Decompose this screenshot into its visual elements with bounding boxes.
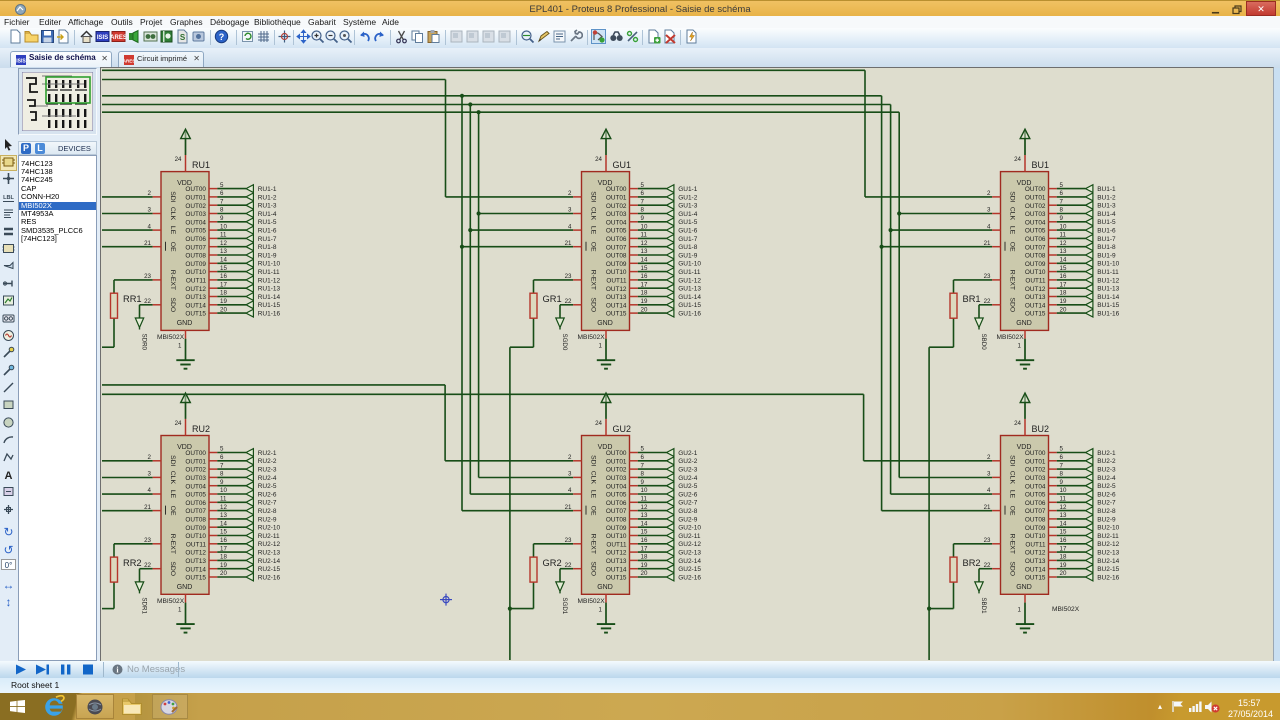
svg-text:21: 21 (144, 504, 151, 511)
wire and terminal BU2-7 (1057, 498, 1116, 506)
svg-text:16: 16 (641, 537, 648, 544)
wire GR2 bottom join (510, 582, 534, 660)
svg-text:MBI502X: MBI502X (157, 598, 185, 605)
wire SDI-G vertical drop (445, 80, 447, 197)
svg-text:RU2-8: RU2-8 (258, 508, 277, 515)
wire LE into GU1 (470, 229, 573, 231)
svg-text:7: 7 (220, 462, 224, 469)
svg-text:2: 2 (568, 454, 572, 461)
wire SDI-G into GU1 (446, 196, 574, 198)
svg-text:BU2-6: BU2-6 (1097, 491, 1116, 498)
svg-text:OUT02: OUT02 (606, 467, 627, 474)
wire R-EXT of BR2 row2 (954, 544, 993, 557)
svg-text:MBI502X: MBI502X (578, 598, 606, 605)
svg-text:OUT13: OUT13 (606, 294, 627, 301)
svg-text:BU2-10: BU2-10 (1097, 525, 1119, 532)
svg-text:OUT08: OUT08 (185, 253, 206, 260)
svg-text:SBD0: SBD0 (980, 334, 987, 351)
svg-text:OUT15: OUT15 (185, 311, 206, 318)
svg-text:24: 24 (595, 156, 602, 163)
svg-text:23: 23 (565, 537, 572, 544)
svg-text:SDO: SDO (1009, 561, 1016, 576)
svg-text:RU2-13: RU2-13 (258, 550, 281, 557)
svg-text:14: 14 (641, 257, 648, 264)
wire and terminal BU2-9 (1057, 515, 1116, 523)
svg-text:GU1-8: GU1-8 (678, 244, 698, 251)
power terminal VDD RU1 (181, 129, 191, 155)
wire and terminal GU1-13 (638, 284, 702, 292)
junction dot (929.1,608.6) (927, 607, 931, 611)
wire and terminal GU1-15 (638, 301, 702, 309)
wire and terminal BU1-2 (1057, 193, 1116, 201)
svg-text:OUT00: OUT00 (606, 186, 627, 193)
wire SDO of GU2 (560, 569, 573, 582)
wire and terminal RU2-1 (217, 449, 277, 457)
svg-text:GU2-14: GU2-14 (678, 558, 701, 565)
wire OE vertical right (881, 96, 883, 511)
wire and terminal BU1-6 (1057, 226, 1116, 234)
svg-text:OUT02: OUT02 (185, 467, 206, 474)
svg-text:23: 23 (984, 537, 991, 544)
wire and terminal GU1-11 (638, 268, 701, 276)
svg-text:RU2: RU2 (192, 424, 210, 434)
svg-text:OUT08: OUT08 (1025, 517, 1046, 524)
terminal SDR0 (down arrow) (135, 318, 147, 351)
ground GU2 (597, 603, 615, 633)
wire LE vertical left (469, 105, 471, 495)
wire and terminal BU1-5 (1057, 218, 1116, 226)
svg-text:BR1: BR1 (963, 294, 981, 304)
wire and terminal RU2-9 (217, 515, 277, 523)
svg-text:1: 1 (599, 342, 603, 349)
svg-text:11: 11 (641, 232, 648, 239)
svg-text:OUT02: OUT02 (1025, 203, 1046, 210)
junction dot (509.9,608.6) (508, 607, 512, 611)
svg-text:RU1-14: RU1-14 (258, 294, 281, 301)
wire and terminal RU2-14 (217, 557, 280, 565)
svg-text:GR2: GR2 (543, 558, 562, 568)
svg-text:OUT05: OUT05 (1025, 492, 1046, 499)
wire and terminal GU1-4 (638, 210, 698, 218)
svg-text:OUT11: OUT11 (606, 541, 627, 548)
wire CLK into BU1 (899, 213, 992, 215)
svg-text:RU2-11: RU2-11 (258, 533, 280, 540)
svg-text:6: 6 (1060, 190, 1064, 197)
svg-text:16: 16 (220, 537, 227, 544)
svg-text:OUT06: OUT06 (606, 236, 627, 243)
svg-text:SDO: SDO (590, 561, 597, 576)
svg-text:OUT10: OUT10 (185, 269, 206, 276)
svg-text:7: 7 (641, 198, 645, 205)
wire and terminal BU2-5 (1057, 482, 1116, 490)
svg-text:BU2-8: BU2-8 (1097, 508, 1116, 515)
svg-text:5: 5 (1060, 182, 1064, 189)
svg-text:OUT07: OUT07 (1025, 508, 1046, 515)
svg-text:CLK: CLK (1009, 207, 1016, 221)
svg-text:OUT15: OUT15 (606, 311, 627, 318)
svg-text:GU2-6: GU2-6 (678, 491, 698, 498)
wire CLK vertical right (898, 112, 900, 477)
svg-text:19: 19 (1060, 562, 1067, 569)
svg-text:BU1-5: BU1-5 (1097, 219, 1116, 226)
wire CLK into RU2 (102, 477, 153, 479)
wire and terminal BU1-1 (1057, 185, 1116, 193)
wire and terminal BU2-16 (1057, 573, 1120, 581)
svg-text:15: 15 (220, 265, 227, 272)
svg-text:GR1: GR1 (543, 294, 562, 304)
wire and terminal GU1-3 (638, 201, 698, 209)
wire CLK vertical left (478, 112, 480, 477)
svg-text:1: 1 (178, 342, 182, 349)
svg-text:OUT13: OUT13 (1025, 558, 1046, 565)
svg-text:OUT12: OUT12 (1025, 286, 1046, 293)
svg-text:RU2-12: RU2-12 (258, 541, 281, 548)
wire and terminal GU2-15 (638, 565, 702, 573)
svg-text:GU1-16: GU1-16 (678, 311, 701, 318)
svg-text:9: 9 (1060, 215, 1064, 222)
svg-text:RU2-6: RU2-6 (258, 491, 277, 498)
svg-text:2: 2 (148, 454, 152, 461)
wire and terminal BU1-3 (1057, 201, 1116, 209)
wire and terminal BU1-13 (1057, 284, 1120, 292)
svg-text:GU2-2: GU2-2 (678, 458, 698, 465)
wire R-EXT of GR1 row1 (534, 280, 574, 293)
svg-text:RU2-5: RU2-5 (258, 483, 277, 490)
svg-text:RU1-8: RU1-8 (258, 244, 277, 251)
svg-text:SDI: SDI (590, 191, 597, 202)
wire and terminal BU2-2 (1057, 457, 1116, 465)
wire OE into BU2 (882, 510, 993, 512)
svg-text:11: 11 (1060, 496, 1067, 503)
svg-text:MBI502X: MBI502X (997, 334, 1025, 341)
svg-text:SDR0: SDR0 (141, 334, 148, 351)
svg-text:1: 1 (599, 606, 603, 613)
svg-text:14: 14 (641, 520, 648, 527)
svg-text:OUT00: OUT00 (185, 186, 206, 193)
wire and terminal RU2-10 (217, 523, 280, 531)
svg-text:OUT10: OUT10 (185, 533, 206, 540)
svg-text:SGD1: SGD1 (561, 597, 568, 614)
svg-text:18: 18 (220, 290, 227, 297)
svg-text:OUT08: OUT08 (606, 253, 627, 260)
svg-text:5: 5 (1060, 446, 1064, 453)
svg-text:OUT06: OUT06 (185, 500, 206, 507)
wire and terminal RU1-9 (217, 251, 277, 259)
svg-text:GND: GND (597, 584, 613, 591)
svg-text:GU2: GU2 (613, 424, 632, 434)
IC RU2 (MBI502X 16-channel driver) (144, 419, 227, 613)
svg-text:OUT02: OUT02 (185, 203, 206, 210)
svg-text:A: A (5, 470, 13, 481)
svg-text:OUT01: OUT01 (606, 458, 627, 465)
resistor RR1 (111, 293, 142, 318)
svg-text:5: 5 (220, 182, 224, 189)
svg-text:OUT11: OUT11 (1025, 541, 1046, 548)
svg-text:4: 4 (987, 487, 991, 494)
wire and terminal RU1-3 (217, 201, 277, 209)
svg-text:BU1: BU1 (1032, 160, 1050, 170)
svg-text:ISIS: ISIS (97, 35, 108, 41)
svg-text:1: 1 (1018, 342, 1022, 349)
svg-text:BU1-3: BU1-3 (1097, 203, 1116, 210)
wire bus LE top run (102, 104, 891, 106)
wire and terminal BU1-8 (1057, 243, 1116, 251)
svg-text:4: 4 (148, 223, 152, 230)
wire and terminal GU2-7 (638, 498, 698, 506)
wire and terminal RU1-4 (217, 210, 277, 218)
wire R-EXT of RR2 row2 (114, 544, 153, 557)
svg-text:OUT03: OUT03 (606, 475, 627, 482)
svg-text:OUT09: OUT09 (185, 261, 206, 268)
wire SDO of BU1 (979, 305, 992, 318)
wire and terminal RU1-15 (217, 301, 280, 309)
svg-text:BU2-7: BU2-7 (1097, 500, 1116, 507)
resistor BR2 (950, 557, 981, 582)
svg-text:18: 18 (1060, 554, 1067, 561)
svg-text:RU2-16: RU2-16 (258, 574, 281, 581)
svg-text:OUT11: OUT11 (606, 278, 627, 285)
svg-text:GU1: GU1 (613, 160, 632, 170)
svg-text:6: 6 (220, 190, 224, 197)
svg-text:OUT07: OUT07 (1025, 244, 1046, 251)
svg-text:GU1-12: GU1-12 (678, 277, 701, 284)
svg-text:OUT07: OUT07 (185, 508, 206, 515)
svg-text:OUT09: OUT09 (606, 525, 627, 532)
resistor GR1 (530, 293, 562, 318)
wire and terminal RU2-4 (217, 474, 277, 482)
svg-text:15: 15 (641, 529, 648, 536)
wire and terminal GU1-14 (638, 293, 702, 301)
svg-text:9: 9 (220, 479, 224, 486)
svg-text:RR2: RR2 (123, 558, 142, 568)
svg-text:RU2-4: RU2-4 (258, 475, 277, 482)
wire and terminal BU2-1 (1057, 449, 1116, 457)
wire SDI into GU2 (445, 460, 573, 462)
svg-text:CLK: CLK (590, 207, 597, 221)
wire and terminal GU1-6 (638, 226, 698, 234)
junction dot (478.6,213.5) (477, 211, 481, 215)
wire and terminal GU2-14 (638, 557, 702, 565)
svg-text:14: 14 (220, 520, 227, 527)
svg-text:GND: GND (177, 320, 193, 327)
power terminal VDD RU2 (181, 393, 191, 419)
svg-text:20: 20 (641, 570, 648, 577)
svg-text:RU1-4: RU1-4 (258, 211, 277, 218)
wire and terminal RU2-6 (217, 490, 277, 498)
svg-text:9: 9 (641, 215, 645, 222)
wire and terminal RU1-2 (217, 193, 277, 201)
svg-text:17: 17 (220, 281, 227, 288)
svg-text:GU2-15: GU2-15 (678, 566, 701, 573)
svg-text:8: 8 (641, 207, 645, 214)
svg-text:RU1-10: RU1-10 (258, 261, 281, 268)
svg-text:RU2-1: RU2-1 (258, 450, 277, 457)
svg-text:22: 22 (144, 298, 151, 305)
svg-text:BU1-7: BU1-7 (1097, 236, 1116, 243)
svg-text:OUT04: OUT04 (606, 219, 627, 226)
svg-text:OE: OE (590, 506, 597, 516)
svg-text:SDO: SDO (590, 297, 597, 312)
wire and terminal RU2-7 (217, 498, 277, 506)
svg-text:OUT13: OUT13 (606, 558, 627, 565)
wire and terminal BU2-14 (1057, 557, 1120, 565)
svg-text:3: 3 (987, 207, 991, 214)
svg-text:GU2-12: GU2-12 (678, 541, 701, 548)
svg-text:OUT10: OUT10 (1025, 269, 1046, 276)
svg-text:OUT04: OUT04 (606, 483, 627, 490)
svg-text:GU1-13: GU1-13 (678, 286, 701, 293)
wire and terminal BU2-8 (1057, 507, 1116, 515)
svg-text:OUT09: OUT09 (185, 525, 206, 532)
svg-text:20: 20 (641, 306, 648, 313)
svg-text:OUT11: OUT11 (186, 541, 207, 548)
svg-text:GU1-6: GU1-6 (678, 228, 698, 235)
wire and terminal GU1-8 (638, 243, 698, 251)
wire bus SDI-B2 run (102, 393, 864, 395)
svg-text:SDO: SDO (169, 561, 176, 576)
svg-text:ISIS: ISIS (16, 59, 26, 65)
wire RR2 bottom to edge (102, 582, 114, 609)
wire and terminal RU2-11 (217, 532, 280, 540)
svg-text:4: 4 (568, 223, 572, 230)
svg-text:RU2-2: RU2-2 (258, 458, 277, 465)
svg-text:GU1-11: GU1-11 (678, 269, 701, 276)
svg-text:BU1-15: BU1-15 (1097, 302, 1119, 309)
svg-text:GND: GND (1016, 584, 1032, 591)
wire OE into GU1 (462, 246, 573, 248)
svg-text:OUT06: OUT06 (1025, 236, 1046, 243)
svg-text:13: 13 (1060, 248, 1067, 255)
svg-text:GU1-15: GU1-15 (678, 302, 701, 309)
wire LE into RU1 (102, 229, 153, 231)
svg-text:3: 3 (568, 471, 572, 478)
wire GR1 bottom down net (510, 318, 534, 608)
junction dot (881.6,246.7) (880, 245, 884, 249)
svg-text:SDI: SDI (169, 191, 176, 202)
wire OE into GU2 (462, 510, 573, 512)
svg-text:19: 19 (220, 562, 227, 569)
svg-text:BU1-14: BU1-14 (1097, 294, 1119, 301)
svg-text:OUT03: OUT03 (606, 211, 627, 218)
wire SDO of RU1 (140, 305, 153, 318)
svg-text:11: 11 (1060, 232, 1067, 239)
wire SDO of RU2 (140, 569, 153, 582)
svg-text:GU2-10: GU2-10 (678, 525, 701, 532)
svg-text:14: 14 (1060, 520, 1067, 527)
svg-text:OUT05: OUT05 (1025, 228, 1046, 235)
svg-text:OUT14: OUT14 (1025, 302, 1046, 309)
svg-text:BU1-16: BU1-16 (1097, 311, 1119, 318)
svg-text:OUT03: OUT03 (185, 211, 206, 218)
terminal SDR1 (down arrow) (135, 582, 147, 615)
svg-text:9: 9 (1060, 479, 1064, 486)
svg-text:16: 16 (1060, 537, 1067, 544)
svg-text:GU1-9: GU1-9 (678, 252, 698, 259)
resistor BR1 (950, 293, 981, 318)
svg-text:RU1-7: RU1-7 (258, 236, 277, 243)
svg-text:OUT08: OUT08 (1025, 253, 1046, 260)
svg-text:7: 7 (1060, 198, 1064, 205)
wire and terminal RU2-16 (217, 573, 280, 581)
svg-text:11: 11 (220, 232, 227, 239)
svg-text:10: 10 (641, 223, 648, 230)
svg-text:GU2-3: GU2-3 (678, 467, 698, 474)
svg-text:LE: LE (1009, 226, 1016, 235)
svg-text:OUT05: OUT05 (606, 492, 627, 499)
svg-text:BU2-4: BU2-4 (1097, 475, 1116, 482)
svg-text:OUT07: OUT07 (185, 244, 206, 251)
svg-text:RU1-13: RU1-13 (258, 286, 281, 293)
wire and terminal GU1-12 (638, 276, 702, 284)
svg-text:6: 6 (641, 454, 645, 461)
svg-text:OUT14: OUT14 (1025, 566, 1046, 573)
wire and terminal GU2-13 (638, 548, 702, 556)
wire SDO of GU1 (560, 305, 573, 318)
svg-text:24: 24 (175, 156, 182, 163)
resistor GR2 (530, 557, 562, 582)
svg-text:OUT04: OUT04 (1025, 483, 1046, 490)
svg-text:OUT14: OUT14 (185, 302, 206, 309)
svg-text:OUT05: OUT05 (606, 228, 627, 235)
terminal SGD0 (down arrow) (556, 318, 568, 351)
svg-text:RU1-12: RU1-12 (258, 277, 281, 284)
svg-text:24: 24 (1014, 420, 1021, 427)
svg-text:12: 12 (220, 240, 227, 247)
svg-text:OUT15: OUT15 (1025, 311, 1046, 318)
wire and terminal GU1-1 (638, 185, 698, 193)
svg-text:LE: LE (1009, 490, 1016, 499)
wire and terminal BU1-16 (1057, 309, 1120, 317)
wire R-EXT of GR2 row2 (534, 544, 574, 557)
svg-text:13: 13 (220, 512, 227, 519)
svg-text:RU1-2: RU1-2 (258, 194, 277, 201)
svg-text:19: 19 (641, 562, 648, 569)
wire and terminal RU1-10 (217, 259, 280, 267)
svg-text:7: 7 (1060, 462, 1064, 469)
wire and terminal RU1-1 (217, 185, 277, 193)
wire OE into RU1 (102, 246, 153, 248)
svg-text:18: 18 (220, 554, 227, 561)
svg-text:OUT14: OUT14 (606, 302, 627, 309)
svg-text:R-EXT: R-EXT (1009, 270, 1016, 290)
svg-text:1: 1 (178, 606, 182, 613)
svg-text:OUT10: OUT10 (606, 269, 627, 276)
svg-text:23: 23 (144, 273, 151, 280)
junction dot (470.3,230.1) (468, 228, 472, 232)
svg-text:RU1-6: RU1-6 (258, 228, 277, 235)
junction dot (470.3,104.5) (468, 102, 472, 106)
svg-text:OUT01: OUT01 (606, 195, 627, 202)
svg-text:OUT06: OUT06 (1025, 500, 1046, 507)
svg-text:OUT05: OUT05 (185, 228, 206, 235)
svg-text:GND: GND (597, 320, 613, 327)
svg-text:BU2-5: BU2-5 (1097, 483, 1116, 490)
svg-text:R-EXT: R-EXT (169, 534, 176, 554)
wire and terminal GU2-1 (638, 449, 698, 457)
svg-text:10: 10 (220, 223, 227, 230)
svg-text:OUT05: OUT05 (185, 492, 206, 499)
wire SDI into RU1 (102, 196, 153, 198)
resistor RR2 (111, 557, 142, 582)
wire and terminal BU1-11 (1057, 268, 1119, 276)
wire and terminal BU2-12 (1057, 540, 1120, 548)
svg-text:RU2-10: RU2-10 (258, 525, 281, 532)
svg-text:OUT06: OUT06 (185, 236, 206, 243)
svg-text:12: 12 (1060, 504, 1067, 511)
svg-text:R-EXT: R-EXT (169, 270, 176, 290)
wire RR1 bottom to edge (102, 318, 114, 347)
svg-text:8: 8 (220, 207, 224, 214)
